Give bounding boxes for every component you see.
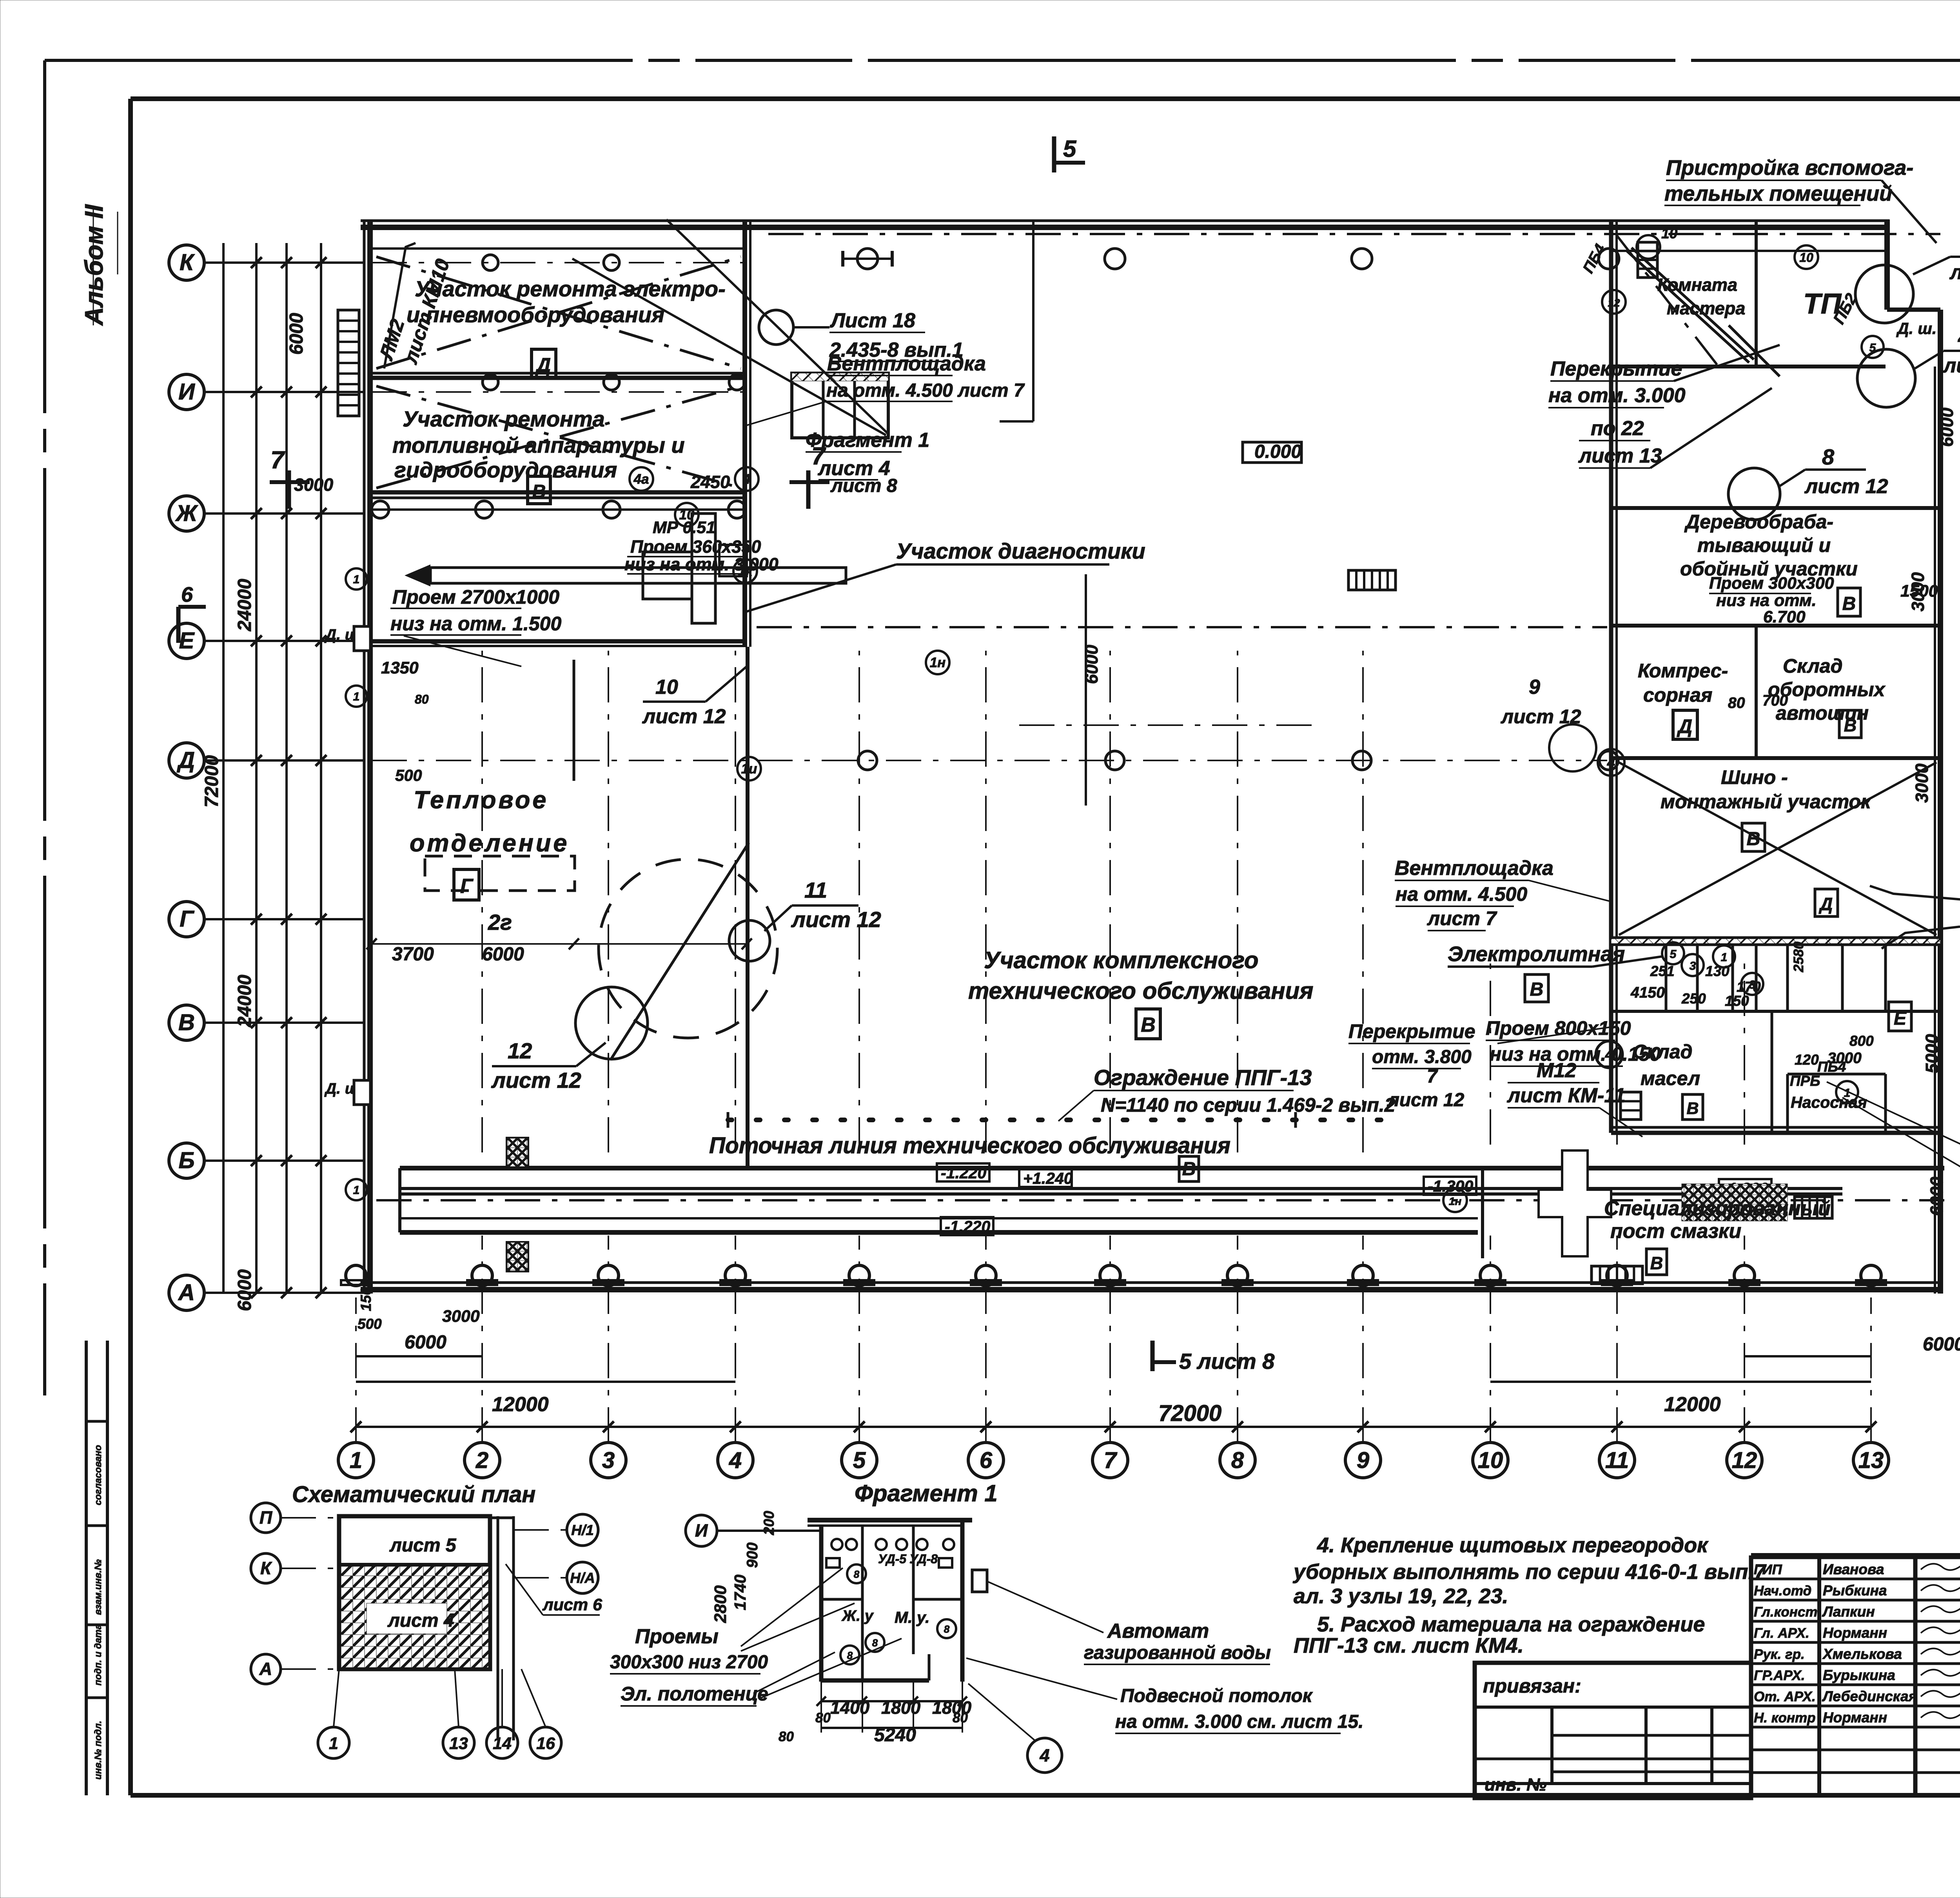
svg-text:Нач.отд: Нач.отд bbox=[1754, 1583, 1811, 1599]
svg-text:Деревообраба-: Деревообраба- bbox=[1684, 511, 1833, 533]
svg-text:11: 11 bbox=[1605, 1448, 1629, 1473]
svg-text:и пневмооборудования: и пневмооборудования bbox=[407, 302, 664, 327]
svg-text:6000: 6000 bbox=[482, 944, 524, 965]
svg-text:Участок диагностики: Участок диагностики bbox=[896, 539, 1145, 563]
svg-text:Электролитная: Электролитная bbox=[1448, 942, 1625, 966]
svg-text:80: 80 bbox=[1728, 695, 1745, 711]
svg-text:3000: 3000 bbox=[442, 1307, 480, 1326]
svg-text:ГР.АРХ.: ГР.АРХ. bbox=[1754, 1668, 1805, 1683]
svg-text:2: 2 bbox=[475, 1448, 488, 1473]
svg-text:1: 1 bbox=[353, 1184, 360, 1197]
svg-text:А: А bbox=[178, 1280, 195, 1305]
svg-text:инв. №: инв. № bbox=[1485, 1775, 1546, 1795]
svg-text:6000: 6000 bbox=[234, 1269, 255, 1311]
svg-text:Норманн: Норманн bbox=[1823, 1625, 1887, 1641]
svg-text:Д. ш.: Д. ш. bbox=[1896, 319, 1936, 338]
svg-text:0.000: 0.000 bbox=[1254, 441, 1301, 462]
svg-text:низ на отм. 1.500: низ на отм. 1.500 bbox=[390, 613, 561, 635]
svg-text:9: 9 bbox=[1357, 1448, 1369, 1473]
svg-text:4. Крепление щитовых перегор: 4. Крепление щитовых перегородок bbox=[1317, 1533, 1709, 1557]
svg-text:-1.220: -1.220 bbox=[945, 1218, 990, 1236]
svg-text:Гл. АРХ.: Гл. АРХ. bbox=[1754, 1626, 1809, 1641]
svg-text:5: 5 bbox=[853, 1448, 866, 1473]
svg-text:7: 7 bbox=[1104, 1448, 1118, 1473]
svg-text:4: 4 bbox=[742, 472, 750, 487]
svg-text:700: 700 bbox=[1762, 692, 1788, 709]
svg-text:24000: 24000 bbox=[234, 579, 255, 631]
svg-text:Проем 300х300: Проем 300х300 bbox=[1709, 574, 1834, 593]
svg-text:11: 11 bbox=[804, 878, 827, 902]
svg-text:Иванова: Иванова bbox=[1823, 1561, 1884, 1577]
svg-text:Д: Д bbox=[1818, 894, 1833, 914]
svg-text:И: И bbox=[695, 1521, 708, 1541]
svg-text:Лебединская: Лебединская bbox=[1822, 1688, 1917, 1704]
svg-text:на отм. 4.500 лист 7: на отм. 4.500 лист 7 bbox=[826, 380, 1025, 401]
svg-text:13: 13 bbox=[1858, 1448, 1884, 1473]
svg-text:3000: 3000 bbox=[294, 475, 333, 495]
svg-text:Комната: Комната bbox=[1657, 275, 1737, 295]
svg-text:1500: 1500 bbox=[1900, 582, 1938, 601]
svg-text:1: 1 bbox=[329, 1734, 338, 1753]
svg-text:5: 5 bbox=[1063, 136, 1077, 162]
svg-text:лист 4: лист 4 bbox=[387, 1610, 454, 1631]
svg-text:Проем 2700х1000: Проем 2700х1000 bbox=[392, 586, 559, 608]
svg-text:14: 14 bbox=[493, 1734, 512, 1753]
svg-text:топливной аппаратуры и: топливной аппаратуры и bbox=[392, 433, 685, 457]
svg-text:12: 12 bbox=[1608, 297, 1620, 309]
svg-text:4: 4 bbox=[1958, 325, 1960, 350]
svg-text:800: 800 bbox=[1849, 1033, 1874, 1049]
svg-text:Н/А: Н/А bbox=[570, 1570, 595, 1586]
svg-text:Тепловое: Тепловое bbox=[414, 786, 548, 814]
svg-text:250: 250 bbox=[1681, 991, 1706, 1007]
svg-text:120: 120 bbox=[1795, 1052, 1819, 1068]
svg-text:12: 12 bbox=[508, 1038, 532, 1063]
svg-text:10: 10 bbox=[655, 676, 678, 699]
svg-text:на отм. 3.000 см. лист 15.: на отм. 3.000 см. лист 15. bbox=[1115, 1711, 1364, 1732]
svg-text:согласовано: согласовано bbox=[93, 1445, 103, 1505]
svg-text:В: В bbox=[1844, 715, 1857, 735]
svg-text:Эл. полотенце: Эл. полотенце bbox=[621, 1683, 768, 1705]
svg-text:3: 3 bbox=[602, 1448, 615, 1473]
svg-text:80: 80 bbox=[815, 1710, 831, 1726]
svg-text:+1.240: +1.240 bbox=[1023, 1169, 1073, 1187]
svg-text:В: В bbox=[1141, 1014, 1156, 1036]
svg-text:гидрооборудования: гидрооборудования bbox=[394, 457, 617, 482]
svg-text:6000: 6000 bbox=[1923, 1334, 1960, 1355]
svg-text:лист 6: лист 6 bbox=[542, 1595, 603, 1614]
svg-text:Вентплощадка: Вентплощадка bbox=[827, 352, 986, 375]
svg-text:Фрагмент 1: Фрагмент 1 bbox=[806, 429, 929, 452]
svg-text:Д: Д bbox=[1677, 715, 1692, 737]
svg-text:УД-8: УД-8 bbox=[909, 1552, 938, 1566]
svg-text:А: А bbox=[259, 1659, 272, 1679]
svg-text:Ограждение ППГ-13: Ограждение ППГ-13 bbox=[1094, 1065, 1312, 1090]
svg-text:2г: 2г bbox=[488, 910, 512, 934]
svg-text:Поточная линия технического: Поточная линия технического обслуживания bbox=[709, 1133, 1230, 1158]
svg-text:8: 8 bbox=[1231, 1448, 1244, 1473]
svg-text:7: 7 bbox=[270, 446, 285, 474]
svg-text:лист 12: лист 12 bbox=[1804, 475, 1888, 498]
svg-text:4: 4 bbox=[1607, 755, 1615, 771]
svg-text:на отм. 4.500: на отм. 4.500 bbox=[1396, 883, 1527, 905]
svg-text:24000: 24000 bbox=[234, 974, 255, 1027]
svg-text:К: К bbox=[180, 250, 195, 275]
svg-text:тывающий и: тывающий и bbox=[1697, 534, 1831, 556]
svg-text:8: 8 bbox=[872, 1637, 878, 1649]
svg-text:2800: 2800 bbox=[711, 1585, 730, 1623]
svg-text:5. Расход материала на ограж: 5. Расход материала на ограждение bbox=[1317, 1613, 1705, 1636]
svg-text:лист 12: лист 12 bbox=[1949, 261, 1960, 284]
svg-text:Н. контр: Н. контр bbox=[1754, 1710, 1815, 1726]
svg-text:6000: 6000 bbox=[286, 313, 307, 355]
svg-text:Рук. гр.: Рук. гр. bbox=[1754, 1647, 1805, 1662]
svg-text:6.700: 6.700 bbox=[1763, 608, 1806, 626]
svg-text:ПРБ: ПРБ bbox=[1790, 1073, 1820, 1089]
svg-text:13: 13 bbox=[449, 1734, 468, 1753]
svg-text:лист КМ-11: лист КМ-11 bbox=[1506, 1084, 1625, 1107]
svg-text:уборных выполнять по серии 416: уборных выполнять по серии 416-0-1 вып.7 bbox=[1292, 1560, 1767, 1584]
svg-text:4а: 4а bbox=[633, 472, 649, 487]
svg-text:1и: 1и bbox=[741, 761, 757, 777]
svg-text:8: 8 bbox=[854, 1568, 860, 1580]
svg-text:В: В bbox=[178, 1010, 195, 1035]
svg-text:251: 251 bbox=[1650, 963, 1675, 979]
svg-text:Схематический план: Схематический план bbox=[292, 1482, 535, 1507]
svg-text:900: 900 bbox=[744, 1542, 761, 1568]
svg-text:1: 1 bbox=[353, 573, 360, 586]
svg-text:К: К bbox=[260, 1558, 272, 1578]
svg-text:500: 500 bbox=[395, 766, 422, 784]
svg-text:1350: 1350 bbox=[381, 659, 419, 677]
svg-text:технического обслуживания: технического обслуживания bbox=[968, 978, 1313, 1004]
svg-text:12000: 12000 bbox=[492, 1393, 549, 1416]
svg-text:отм. 3.800: отм. 3.800 bbox=[1372, 1047, 1472, 1067]
svg-text:500: 500 bbox=[358, 1316, 382, 1332]
svg-text:Рыбкина: Рыбкина bbox=[1823, 1582, 1887, 1599]
svg-text:Е: Е bbox=[1894, 1008, 1907, 1029]
svg-text:6000: 6000 bbox=[1927, 1177, 1947, 1216]
svg-text:4: 4 bbox=[729, 1448, 742, 1473]
svg-text:6: 6 bbox=[181, 583, 193, 606]
svg-text:лист 4: лист 4 bbox=[817, 457, 890, 480]
svg-text:ГИП: ГИП bbox=[1754, 1562, 1782, 1577]
svg-text:лист 12: лист 12 bbox=[642, 705, 726, 728]
svg-text:5: 5 bbox=[1869, 341, 1877, 354]
svg-text:Проем 800х150: Проем 800х150 bbox=[1486, 1017, 1631, 1039]
svg-text:Лапкин: Лапкин bbox=[1822, 1604, 1875, 1620]
svg-text:пост смазки: пост смазки bbox=[1610, 1220, 1741, 1243]
svg-text:9: 9 bbox=[1529, 676, 1540, 699]
svg-text:72000: 72000 bbox=[1158, 1401, 1221, 1426]
svg-text:Пристройка вспомога-: Пристройка вспомога- bbox=[1666, 156, 1913, 180]
svg-text:6000: 6000 bbox=[405, 1332, 446, 1353]
svg-text:Е: Е bbox=[179, 628, 195, 653]
svg-text:6: 6 bbox=[980, 1448, 993, 1473]
svg-text:80: 80 bbox=[953, 1710, 968, 1726]
svg-text:Б: Б bbox=[178, 1148, 194, 1173]
svg-text:1н: 1н bbox=[1449, 1195, 1462, 1207]
svg-text:Проем 360х350: Проем 360х350 bbox=[630, 537, 761, 557]
svg-text:3700: 3700 bbox=[392, 944, 434, 965]
svg-text:лист 13: лист 13 bbox=[1578, 445, 1662, 467]
svg-text:лист 12: лист 12 bbox=[1387, 1090, 1465, 1110]
svg-text:газированной воды: газированной воды bbox=[1084, 1642, 1271, 1663]
svg-text:Фрагмент 1: Фрагмент 1 bbox=[855, 1480, 998, 1506]
svg-text:Д: Д bbox=[535, 354, 551, 376]
svg-text:1: 1 bbox=[353, 690, 360, 703]
svg-text:5 лист 8: 5 лист 8 bbox=[1179, 1349, 1275, 1374]
svg-text:3000: 3000 bbox=[1912, 764, 1932, 803]
svg-text:10: 10 bbox=[1661, 225, 1678, 241]
svg-text:Участок ремонта электро-: Участок ремонта электро- bbox=[415, 276, 726, 301]
svg-text:Перекрытие: Перекрытие bbox=[1348, 1020, 1475, 1042]
svg-text:N=1140 по серии 1.469-2 вып.2: N=1140 по серии 1.469-2 вып.2 bbox=[1101, 1094, 1396, 1116]
svg-text:П: П bbox=[260, 1508, 273, 1528]
svg-text:5: 5 bbox=[1670, 948, 1677, 961]
svg-text:Участок ремонта: Участок ремонта bbox=[403, 406, 605, 431]
svg-text:6000: 6000 bbox=[1082, 645, 1102, 684]
svg-text:инв.№ подл.: инв.№ подл. bbox=[93, 1721, 103, 1780]
svg-text:200: 200 bbox=[761, 1511, 777, 1535]
svg-text:ал. 3 узлы 19, 22, 23.: ал. 3 узлы 19, 22, 23. bbox=[1294, 1584, 1508, 1608]
svg-text:тельных помещений: тельных помещений bbox=[1664, 182, 1892, 205]
svg-text:12: 12 bbox=[1732, 1448, 1757, 1473]
svg-text:лист 12: лист 12 bbox=[791, 907, 881, 932]
svg-text:8: 8 bbox=[1822, 445, 1835, 469]
svg-text:Лист 18: Лист 18 bbox=[829, 309, 915, 332]
svg-text:Бурыкина: Бурыкина bbox=[1823, 1667, 1895, 1683]
svg-text:В: В bbox=[532, 481, 546, 502]
svg-text:1н: 1н bbox=[930, 655, 946, 670]
svg-text:3: 3 bbox=[1749, 978, 1756, 991]
svg-text:300х300 низ 2700: 300х300 низ 2700 bbox=[610, 1652, 768, 1673]
svg-text:5240: 5240 bbox=[874, 1725, 916, 1746]
svg-text:по 22: по 22 bbox=[1591, 417, 1644, 440]
svg-text:1740: 1740 bbox=[731, 1575, 749, 1610]
svg-text:В: В bbox=[1842, 593, 1856, 614]
svg-text:6000: 6000 bbox=[1937, 408, 1957, 447]
svg-text:Участок комплексного: Участок комплексного bbox=[984, 947, 1259, 973]
svg-text:УД-5: УД-5 bbox=[878, 1552, 907, 1566]
svg-text:Д: Д bbox=[176, 748, 195, 773]
svg-text:10: 10 bbox=[1799, 250, 1813, 265]
svg-text:10: 10 bbox=[679, 507, 695, 523]
svg-text:1: 1 bbox=[350, 1448, 362, 1473]
svg-text:От. АРХ.: От. АРХ. bbox=[1754, 1689, 1816, 1704]
svg-text:М. у.: М. у. bbox=[895, 1608, 930, 1626]
svg-text:отделение: отделение bbox=[410, 829, 569, 857]
svg-text:Г: Г bbox=[460, 875, 474, 898]
svg-text:150: 150 bbox=[1725, 993, 1749, 1009]
svg-text:3000: 3000 bbox=[1828, 1050, 1862, 1067]
svg-text:80: 80 bbox=[779, 1729, 794, 1744]
svg-text:В: В bbox=[1650, 1253, 1663, 1273]
svg-text:В: В bbox=[1686, 1099, 1699, 1118]
svg-text:ППГ-13 см. лист КМ4.: ППГ-13 см. лист КМ4. bbox=[1294, 1634, 1524, 1657]
svg-text:Компрес-: Компрес- bbox=[1638, 660, 1728, 682]
svg-text:16: 16 bbox=[536, 1734, 555, 1753]
svg-text:Вентплощадка: Вентплощадка bbox=[1395, 857, 1553, 880]
svg-text:низ на отм. 0.150: низ на отм. 0.150 bbox=[1490, 1043, 1661, 1065]
svg-text:подп. и дата: подп. и дата bbox=[93, 1624, 103, 1686]
svg-text:Хмелькова: Хмелькова bbox=[1822, 1646, 1902, 1662]
svg-text:Ж. у: Ж. у bbox=[841, 1608, 874, 1624]
svg-text:лист 12: лист 12 bbox=[1942, 354, 1960, 377]
svg-text:2450: 2450 bbox=[690, 472, 730, 492]
svg-text:масел: масел bbox=[1641, 1067, 1700, 1089]
svg-text:1800: 1800 bbox=[881, 1698, 920, 1718]
svg-text:лист 7: лист 7 bbox=[1427, 907, 1497, 929]
svg-text:Автомат: Автомат bbox=[1107, 1620, 1209, 1642]
svg-text:8: 8 bbox=[944, 1623, 950, 1635]
svg-text:лист 12: лист 12 bbox=[491, 1068, 581, 1092]
svg-text:-1.300: -1.300 bbox=[1428, 1177, 1473, 1195]
svg-text:Н/1: Н/1 bbox=[571, 1522, 594, 1538]
svg-text:Шино -: Шино - bbox=[1721, 766, 1788, 788]
svg-text:80: 80 bbox=[415, 692, 429, 706]
svg-text:12000: 12000 bbox=[1664, 1393, 1721, 1416]
svg-text:Ж: Ж bbox=[175, 501, 198, 526]
svg-text:сорная: сорная bbox=[1643, 684, 1712, 706]
svg-text:1400: 1400 bbox=[830, 1698, 869, 1718]
svg-text:10: 10 bbox=[1478, 1448, 1503, 1473]
svg-text:Специализированный: Специализированный bbox=[1604, 1197, 1831, 1220]
svg-text:-1.220: -1.220 bbox=[941, 1164, 986, 1182]
svg-text:3: 3 bbox=[1690, 960, 1696, 973]
svg-text:Норманн: Норманн bbox=[1823, 1709, 1887, 1726]
svg-text:И: И bbox=[178, 379, 195, 405]
svg-text:Подвесной потолок: Подвесной потолок bbox=[1120, 1686, 1313, 1706]
svg-text:Проемы: Проемы bbox=[635, 1625, 719, 1648]
svg-text:72000: 72000 bbox=[201, 755, 222, 807]
svg-text:В: В bbox=[1530, 979, 1544, 1000]
svg-text:Гл.конст: Гл.конст bbox=[1754, 1604, 1818, 1620]
svg-text:лист 5: лист 5 bbox=[389, 1535, 457, 1556]
svg-text:взам.инв.№: взам.инв.№ bbox=[93, 1559, 103, 1615]
svg-text:1к: 1к bbox=[738, 564, 753, 579]
svg-text:5000: 5000 bbox=[1922, 1034, 1942, 1073]
svg-text:4: 4 bbox=[1039, 1746, 1049, 1766]
svg-text:на отм. 3.000: на отм. 3.000 bbox=[1548, 384, 1686, 407]
svg-text:1: 1 bbox=[1721, 951, 1728, 964]
svg-text:Склад: Склад bbox=[1783, 655, 1843, 677]
svg-text:2580: 2580 bbox=[1791, 942, 1806, 973]
svg-text:привязан:: привязан: bbox=[1483, 1675, 1581, 1697]
svg-text:Г: Г bbox=[180, 906, 194, 932]
svg-text:4150: 4150 bbox=[1630, 984, 1665, 1001]
svg-text:Перекрытие: Перекрытие bbox=[1550, 357, 1682, 380]
